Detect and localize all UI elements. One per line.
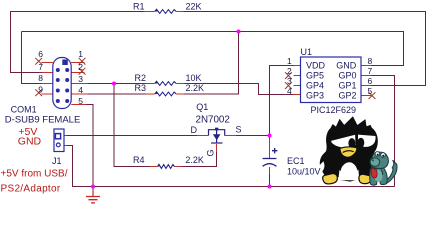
svg-text:1: 1 [287, 56, 292, 66]
DSUB left stubs pins 6,7,8,9 [42, 63, 53, 95]
wire R4 to gate [182, 152, 217, 167]
wire J1 gnd to rail [67, 146, 395, 187]
svg-text:G: G [206, 149, 216, 156]
croc tail [385, 160, 397, 184]
DSUB right pin dots [65, 68, 69, 103]
wire R2 row y=83 [88, 84, 294, 95]
wire DSUB pin5 gnd drop [86, 105, 93, 187]
svg-text:R1: R1 [133, 2, 145, 12]
svg-text:8: 8 [38, 73, 43, 83]
PIC left stubs [294, 66, 301, 95]
svg-text:GP0: GP0 [339, 71, 357, 81]
svg-text:R3: R3 [135, 83, 147, 93]
wire left vertical x=10 to DSUB pin7 [11, 12, 42, 73]
capacitor EC1 [263, 148, 278, 166]
penguin eye right white [358, 135, 376, 147]
penguin pupil right [358, 138, 365, 148]
svg-text:PIC12F629: PIC12F629 [311, 105, 357, 115]
svg-text:Q1: Q1 [196, 102, 208, 112]
wire EC1 bottom to rail [269, 174, 271, 187]
X DSUB pin 2 [79, 68, 86, 75]
penguin beak [340, 147, 357, 157]
svg-text:D-SUB9 FEMALE: D-SUB9 FEMALE [5, 115, 81, 126]
X DSUB pin 6 [35, 58, 42, 65]
R2 leads [146, 83, 184, 85]
J1 pin1 square [55, 134, 60, 139]
croc arm [381, 170, 383, 175]
svg-text:VDD: VDD [306, 60, 326, 70]
croc pupil right [382, 155, 384, 157]
croc eye left [375, 152, 380, 157]
svg-text:GP5: GP5 [306, 71, 324, 81]
connector COM1 DSUB body [53, 58, 71, 109]
red pin leads [42, 12, 372, 175]
X PIC pin 2 [285, 72, 292, 79]
svg-text:U1: U1 [301, 47, 313, 57]
svg-text:7: 7 [38, 62, 43, 72]
EC1 top lead [269, 138, 271, 158]
X DSUB pin 9 [35, 89, 42, 96]
svg-text:2: 2 [287, 66, 292, 76]
croc pupil left [377, 154, 379, 156]
R3 leads [146, 93, 184, 95]
PIC right stubs [361, 66, 371, 96]
node rail2/R3 junction [237, 30, 241, 34]
svg-text:GP4: GP4 [306, 81, 324, 91]
op IC U1 PIC12F629 box [301, 57, 362, 103]
J1 pin2 round [56, 143, 60, 147]
svg-text:S: S [236, 125, 242, 135]
croc mouth [371, 167, 379, 169]
node EC1 gnd junction [268, 185, 272, 189]
wire +5V row y=135 [67, 135, 197, 137]
Q1 gate lead [216, 144, 218, 152]
croc snout [370, 158, 380, 166]
svg-text:10u/10V: 10u/10V [287, 167, 321, 177]
node R2/R4 junction [112, 82, 116, 86]
svg-text:+5V from USB/: +5V from USB/ [1, 168, 68, 179]
croc tongue [371, 168, 377, 178]
svg-text:GND: GND [18, 135, 42, 147]
wire VDD down [270, 66, 294, 139]
svg-text:R4: R4 [133, 155, 145, 165]
svg-text:GP2: GP2 [339, 91, 357, 101]
node +5V junction [268, 134, 272, 138]
penguin white leg arch [340, 162, 358, 180]
svg-text:6: 6 [368, 76, 373, 86]
wire rail2 left vertical to DSUB pin8 [22, 32, 42, 84]
penguin body black [320, 116, 379, 181]
svg-text:R2: R2 [135, 73, 147, 83]
svg-text:5: 5 [78, 96, 83, 106]
croc nostril [372, 160, 374, 162]
Q1 D lead [197, 135, 209, 137]
penguin beak crease [343, 151, 354, 153]
svg-text:GND: GND [336, 60, 357, 70]
penguin foot right [359, 174, 372, 183]
resistor R1 [155, 9, 176, 13]
svg-text:3: 3 [287, 76, 292, 86]
svg-text:2.2K: 2.2K [185, 155, 204, 165]
penguin mascot graphic [320, 116, 397, 185]
EC1 bottom lead [269, 167, 271, 174]
svg-text:22K: 22K [186, 2, 202, 12]
wire R3 row y=93.5 [88, 32, 239, 95]
svg-text:GP3: GP3 [306, 91, 324, 101]
svg-text:EC1: EC1 [287, 156, 305, 166]
resistor R4 [158, 164, 175, 168]
svg-text:GP1: GP1 [339, 81, 357, 91]
X PIC pin 3 [285, 82, 292, 89]
svg-text:1: 1 [78, 49, 83, 59]
svg-text:9: 9 [38, 85, 43, 95]
X PIC pin 5 GP2 [369, 92, 376, 99]
svg-text:7: 7 [368, 66, 373, 76]
connector J1 [54, 129, 64, 152]
Q1 S lead [225, 135, 237, 137]
svg-text:J1: J1 [52, 156, 62, 166]
svg-text:10K: 10K [186, 73, 202, 83]
croc belly patch [374, 170, 382, 182]
penguin eye left white [331, 135, 356, 148]
ground symbol [86, 187, 100, 203]
svg-text:4: 4 [287, 86, 292, 96]
transistor Q1 2N7002 symbol [209, 130, 225, 143]
svg-text:COM1: COM1 [11, 105, 37, 115]
croc body [370, 165, 388, 185]
croc head [370, 152, 388, 168]
svg-text:8: 8 [368, 56, 373, 66]
R4 leads [150, 166, 182, 168]
R1 leads [145, 11, 184, 13]
svg-text:2.2K: 2.2K [186, 83, 205, 93]
node gnd junction [91, 185, 95, 189]
penguin pupil left [348, 138, 355, 148]
svg-text:5: 5 [368, 86, 373, 96]
resistor R2 [155, 81, 176, 85]
svg-text:2: 2 [78, 62, 83, 72]
wire rail2 y=31 [22, 32, 404, 66]
svg-text:4: 4 [78, 85, 83, 95]
no-connect X marks [35, 58, 375, 99]
svg-text:2N7002: 2N7002 [196, 115, 230, 126]
DSUB left pin dots [56, 68, 60, 103]
croc eye right [381, 153, 386, 158]
DSUB right stubs pins 1,2,3,4,5 [71, 63, 88, 105]
wire Q1 S to junction [236, 135, 270, 137]
svg-text:D: D [191, 125, 198, 135]
X DSUB pin 1 [79, 58, 86, 65]
wire GP0 drop [371, 76, 395, 187]
penguin foot left [323, 173, 338, 183]
resistor R3 [155, 92, 176, 96]
wire junction vertical x=114 down to R4 [114, 84, 150, 167]
wire top rail y=11 [10, 12, 426, 86]
DSUB pin1 square [62, 60, 68, 66]
svg-text:6: 6 [38, 49, 43, 59]
svg-text:3: 3 [78, 74, 83, 84]
J1 stubs [64, 136, 67, 146]
svg-text:PS2/Adaptor: PS2/Adaptor [1, 183, 61, 194]
